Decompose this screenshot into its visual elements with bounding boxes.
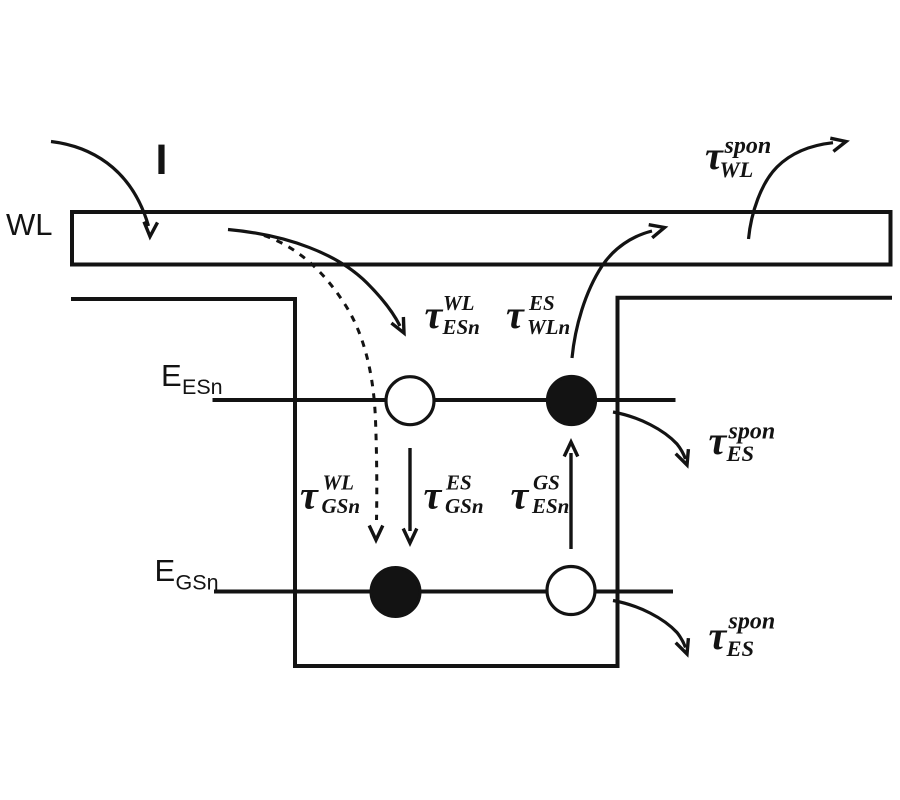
wetting layer band WL xyxy=(72,212,891,265)
dashed arrow WL to GS capture (tau_GSn-WL) xyxy=(264,236,383,541)
svg-text:τ: τ xyxy=(506,292,525,337)
right well wall xyxy=(616,296,620,666)
svg-text:ES: ES xyxy=(528,291,555,315)
arrow WL to ES capture (tau_ESn-WL) xyxy=(228,230,404,334)
right barrier ledge xyxy=(616,296,893,300)
arrow WL spontaneous emission (tau_WL-spon) xyxy=(749,138,847,239)
svg-text:τ: τ xyxy=(425,292,444,337)
svg-text:τ: τ xyxy=(424,473,443,518)
arrow ES to GS relaxation (tau_GSn-ES) xyxy=(403,448,417,543)
svg-text:spon: spon xyxy=(728,609,776,635)
svg-text:WL: WL xyxy=(443,291,475,315)
svg-text:ES: ES xyxy=(445,471,472,495)
svg-text:E: E xyxy=(161,358,182,393)
well bottom xyxy=(293,664,620,668)
svg-text:τ: τ xyxy=(511,473,530,518)
svg-text:ES: ES xyxy=(726,636,755,661)
svg-text:τ: τ xyxy=(709,418,728,463)
svg-text:τ: τ xyxy=(300,473,319,518)
svg-text:ESn: ESn xyxy=(182,375,223,399)
arrow GS spontaneous emission (tau_ES-spon lower) xyxy=(613,601,688,655)
ES energy level line E_ESn xyxy=(213,398,676,402)
injection current arrow I xyxy=(51,142,158,237)
ES filled circle (electron) xyxy=(548,377,596,425)
svg-text:WL: WL xyxy=(323,471,355,495)
GS energy level line E_GSn xyxy=(214,590,673,594)
ES open circle (empty state) xyxy=(386,377,434,425)
svg-text:GSn: GSn xyxy=(322,494,361,518)
svg-text:E: E xyxy=(155,553,176,588)
GS open circle (empty state) xyxy=(547,567,595,615)
arrow ES spontaneous emission (tau_ES-spon upper) xyxy=(613,412,688,465)
left barrier ledge xyxy=(71,297,297,301)
svg-text:GSn: GSn xyxy=(176,571,219,595)
svg-text:GS: GS xyxy=(533,471,560,495)
svg-text:GSn: GSn xyxy=(445,494,484,518)
svg-text:WL: WL xyxy=(6,207,53,242)
svg-text:WL: WL xyxy=(720,157,754,182)
left well wall xyxy=(293,297,297,668)
svg-text:τ: τ xyxy=(709,613,728,658)
svg-text:ESn: ESn xyxy=(531,494,569,518)
svg-text:spon: spon xyxy=(724,133,772,159)
GS filled circle (electron) xyxy=(371,568,420,617)
svg-text:ESn: ESn xyxy=(442,315,480,339)
svg-text:I: I xyxy=(156,136,168,184)
arrow GS to ES escape (tau_ESn-GS) xyxy=(564,442,578,549)
svg-text:ES: ES xyxy=(726,441,755,466)
arrow ES to WL escape (tau_WLn-ES) xyxy=(572,225,665,358)
svg-text:WLn: WLn xyxy=(527,315,570,339)
